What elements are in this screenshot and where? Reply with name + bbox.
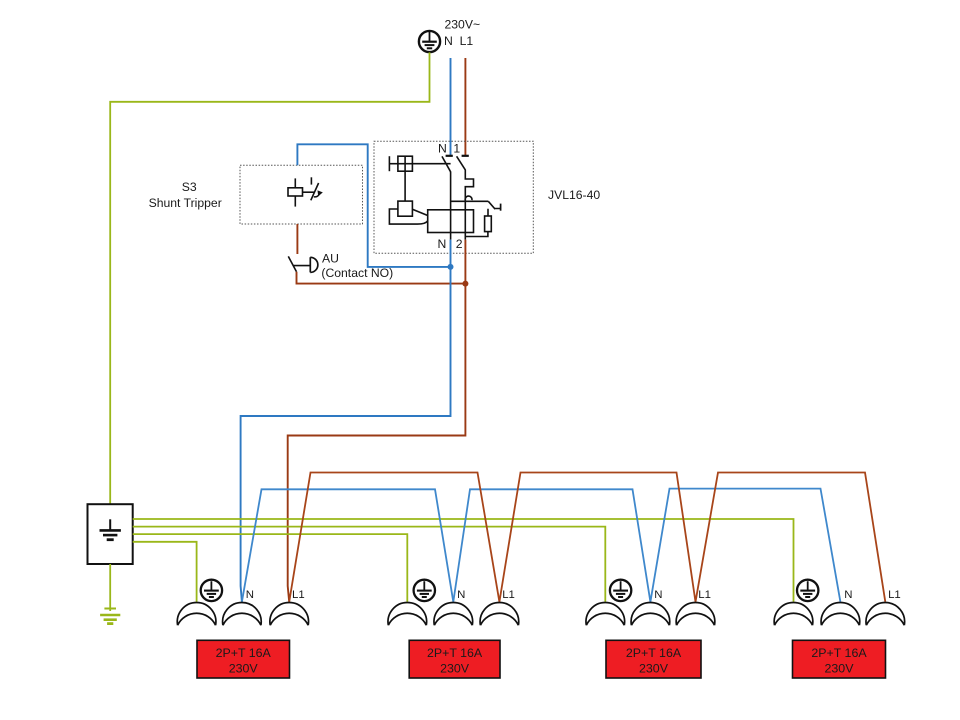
svg-text:1: 1 — [453, 141, 460, 155]
outlet group 4 PE circle symbol — [797, 580, 818, 601]
outlet group 4 rating box — [793, 640, 886, 678]
wire test button to N pole — [412, 163, 450, 165]
ground symbol green — [100, 609, 120, 624]
svg-text:N: N — [444, 34, 453, 48]
shunt trip coil S3 — [288, 178, 314, 206]
outlet group 2 earth socket crescent — [388, 603, 427, 626]
outlet group 2 L1 socket crescent — [480, 603, 519, 626]
svg-text:2P+T 16A: 2P+T 16A — [216, 646, 272, 660]
svg-text:N: N — [844, 589, 852, 601]
breaker L pole blade — [457, 156, 466, 170]
trip coil diagonal linkage — [412, 209, 427, 215]
svg-text:230V: 230V — [639, 661, 669, 675]
svg-text:Shunt Tripper: Shunt Tripper — [149, 196, 222, 210]
svg-text:230V: 230V — [825, 661, 855, 675]
outlet group 1 earth socket crescent — [177, 603, 216, 626]
svg-text:S3: S3 — [182, 180, 197, 194]
outlet group 3 earth socket crescent — [586, 603, 625, 626]
wire blue chain outlet3 to outlet4 — [650, 489, 840, 602]
wire green earth bus to outlet 1 — [133, 542, 197, 602]
svg-text:230V: 230V — [440, 661, 470, 675]
breaker test button — [389, 156, 412, 171]
svg-text:N: N — [246, 589, 254, 601]
terminal dash L1-1 — [462, 155, 469, 157]
outlet group 1 PE circle symbol — [201, 580, 222, 601]
svg-text:2P+T 16A: 2P+T 16A — [626, 646, 682, 660]
svg-text:L1: L1 — [502, 589, 515, 601]
shunt trip arrow — [314, 195, 319, 197]
breaker trip coil square — [398, 201, 413, 216]
svg-text:AU: AU — [322, 252, 339, 266]
JVL16-40 box dashed — [374, 141, 533, 253]
wire L1 red supply drop — [464, 58, 466, 156]
wire blue chain outlet2 to outlet3 — [453, 489, 650, 602]
wire blue N breaker to bus corner — [241, 240, 451, 602]
outlet group 3 rating box — [606, 640, 701, 678]
wire N blue supply drop — [450, 58, 452, 156]
breaker N pole blade — [442, 156, 451, 172]
wire test button to trip coil — [404, 171, 406, 201]
test circuit horizontal — [451, 200, 489, 202]
svg-text:L1: L1 — [698, 589, 711, 601]
breaker L pole conductor with thermal bump — [465, 170, 473, 240]
wire green earth bus to outlet 2 — [133, 534, 408, 602]
svg-text:L1: L1 — [460, 34, 474, 48]
svg-text:2P+T 16A: 2P+T 16A — [427, 646, 483, 660]
svg-text:2P+T 16A: 2P+T 16A — [811, 646, 867, 660]
test resistor leads — [465, 209, 488, 237]
earth symbol in box — [100, 519, 121, 539]
svg-text:JVL16-40: JVL16-40 — [548, 188, 600, 202]
AU contact D shape — [310, 257, 318, 272]
differential relay rectangle — [428, 210, 474, 233]
wire red S3 to AU contact — [296, 224, 298, 254]
svg-text:(Contact NO): (Contact NO) — [321, 266, 393, 280]
wire red L1 breaker to bus corner — [288, 240, 466, 602]
outlet group 2 N socket crescent — [434, 603, 473, 626]
protective earth symbol PE supply — [419, 31, 440, 52]
test circuit switch terminal — [500, 204, 502, 211]
wire green earth bus to outlet 4 — [133, 519, 794, 602]
svg-text:2: 2 — [456, 237, 463, 251]
wire blue branch junction to S3 box — [297, 144, 450, 267]
breaker N pole conductor — [450, 172, 452, 240]
outlet group 3 L1 socket crescent — [676, 603, 715, 626]
shunt trip actuator blade — [311, 177, 319, 200]
wire red chain outlet1 to outlet2 — [289, 473, 499, 602]
svg-text:L1: L1 — [888, 589, 901, 601]
outlet group 4 L1 socket crescent — [866, 603, 905, 626]
outlet group 3 PE circle symbol — [610, 580, 631, 601]
wire red AU to junction — [297, 272, 466, 284]
junction red node — [462, 281, 468, 287]
svg-text:230V: 230V — [229, 661, 259, 675]
outlet group 1 N socket crescent — [223, 603, 262, 626]
svg-text:L1: L1 — [292, 589, 305, 601]
svg-text:N: N — [654, 589, 662, 601]
test circuit switch blade — [488, 201, 495, 209]
outlet group 3 N socket crescent — [631, 603, 670, 626]
wire red chain outlet3 to outlet4 — [696, 473, 886, 602]
outlet group 1 rating box — [197, 640, 290, 678]
svg-text:N: N — [438, 237, 447, 251]
svg-text:N: N — [457, 589, 465, 601]
terminal dash N1 — [446, 155, 453, 157]
outlet group 2 PE circle symbol — [414, 580, 435, 601]
AU contact switch blade — [288, 256, 296, 271]
wire red chain outlet2 to outlet3 — [499, 473, 695, 602]
svg-text:N: N — [438, 141, 447, 155]
AU contact bar — [293, 265, 310, 267]
svg-text:230V~: 230V~ — [445, 18, 481, 32]
outlet group 2 rating box — [409, 640, 500, 678]
earth distribution box — [88, 504, 133, 564]
wire PE green from supply to earth box — [110, 52, 429, 504]
breaker magnetic coil hook — [465, 196, 472, 200]
wire green earth bus to outlet 3 — [133, 527, 606, 602]
S3 box dashed — [240, 165, 363, 224]
test resistor — [485, 216, 492, 232]
junction blue node — [448, 264, 454, 270]
wire blue chain outlet1 to outlet2 — [242, 489, 453, 602]
wire green earth box to ground — [109, 564, 111, 611]
trip coil left linkage — [389, 209, 427, 224]
outlet group 4 N socket crescent — [821, 603, 860, 626]
outlet group 4 earth socket crescent — [774, 603, 813, 626]
outlet group 1 L1 socket crescent — [270, 603, 309, 626]
